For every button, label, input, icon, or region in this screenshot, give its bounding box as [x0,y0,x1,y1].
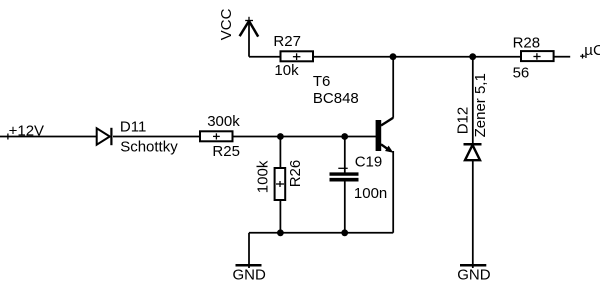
zener diode D12 [464,144,482,160]
wire diode to R25 [113,136,200,138]
svg-text:10k: 10k [274,62,299,79]
wire emitter down [392,151,394,233]
pin cross uC [580,54,585,59]
svg-text:Zener 5,1: Zener 5,1 [472,73,489,137]
svg-text:R28: R28 [513,35,541,52]
junction dot bottom C19 [341,229,348,236]
svg-text:C19: C19 [355,154,383,171]
wire D12 upper [472,57,474,143]
svg-text:D12: D12 [454,107,471,135]
svg-text:BC848: BC848 [313,90,359,107]
svg-text:µC: µC [584,42,600,59]
wire to left GND [248,233,250,268]
capacitor C19 plus tick [338,167,347,169]
svg-text:+12V: +12V [9,122,44,139]
wire R26 upper [279,137,281,168]
resistor R26 [275,168,286,200]
wire VCC to R27 [249,56,280,58]
junction dot at collector [390,53,397,60]
capacitor C19 [330,174,359,180]
resistor R25 [200,131,233,141]
resistor R27 [281,51,314,61]
svg-text:GND: GND [233,267,267,284]
svg-text:Schottky: Schottky [120,138,178,155]
wire top rail R27 to R28 [313,56,521,58]
ground left [236,264,262,267]
wire C19 upper [344,137,346,173]
junction dot at D12 [469,53,476,60]
resistor R28 [521,51,554,61]
svg-text:100n: 100n [354,185,387,202]
wire main rail left segment [0,136,97,138]
wire D12 lower [472,160,474,268]
svg-text:VCC: VCC [218,8,235,40]
junction dot bottom R26 [277,229,284,236]
wire R26 lower [279,201,281,233]
junction dot at R26 top [277,133,284,140]
svg-text:300k: 300k [207,113,240,130]
pin tick at +12V input [7,134,9,140]
svg-text:R26: R26 [287,160,304,188]
svg-text:R27: R27 [273,33,301,50]
diode D11 [97,128,112,145]
svg-text:56: 56 [513,65,530,82]
svg-text:R25: R25 [212,143,240,160]
svg-text:GND: GND [457,267,491,284]
supply VCC [240,17,259,57]
ground right [460,264,486,267]
wire collector up [392,57,394,118]
wire R25 to base [233,136,377,138]
wire C19 lower [344,182,346,233]
wire bottom rail [249,232,393,234]
junction dot at C19 top [341,133,348,140]
svg-text:D11: D11 [120,119,146,136]
transistor T6 [376,118,394,153]
svg-text:T6: T6 [313,73,331,90]
svg-text:100k: 100k [254,160,271,193]
wire R28 to uC [555,56,571,58]
